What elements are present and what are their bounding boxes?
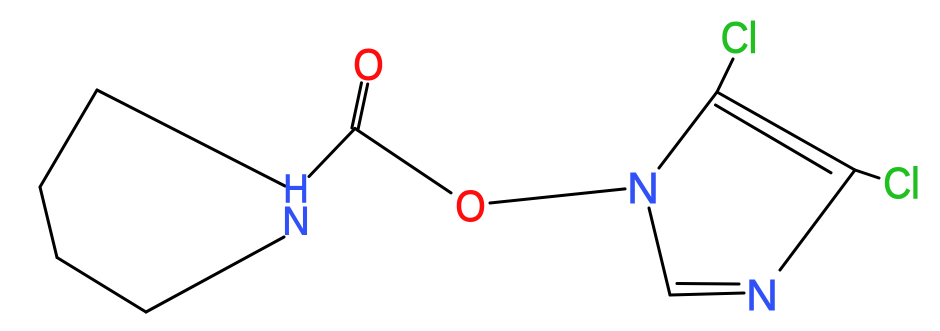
- svg-text:N: N: [282, 199, 309, 243]
- bond C=O line a: [358, 84, 368, 129]
- bond C4-Cl right: [855, 170, 879, 178]
- bond C4-N3: [780, 170, 855, 270]
- bond apex to NH (S1): [97, 90, 285, 186]
- svg-text:Cl: Cl: [883, 158, 920, 208]
- bond ring bottom right to N: [146, 237, 284, 312]
- bond N3=C2 inner: [677, 282, 739, 286]
- bond ring apex to left: [40, 90, 97, 187]
- bond ring bottom left: [57, 258, 146, 313]
- bond C=O line b: [352, 83, 362, 128]
- bond ester O to ring N1: [490, 189, 625, 203]
- svg-text:O: O: [353, 39, 383, 89]
- bond C5=C4 main: [717, 92, 855, 170]
- svg-text:O: O: [455, 181, 485, 231]
- svg-text:Cl: Cl: [721, 12, 758, 62]
- bond ring left steep: [40, 187, 57, 258]
- bond carbonyl C to ester O: [355, 129, 451, 193]
- bond N1-C5: [659, 92, 717, 168]
- bond N3=C2 main: [670, 293, 744, 295]
- svg-text:N: N: [746, 271, 778, 320]
- bond C2-N1: [649, 208, 670, 295]
- bond NH to carbonyl C: [309, 129, 355, 177]
- bond C5=C4 inner: [716, 105, 832, 173]
- bond C5-Cl top: [717, 59, 733, 92]
- svg-text:N: N: [627, 164, 659, 213]
